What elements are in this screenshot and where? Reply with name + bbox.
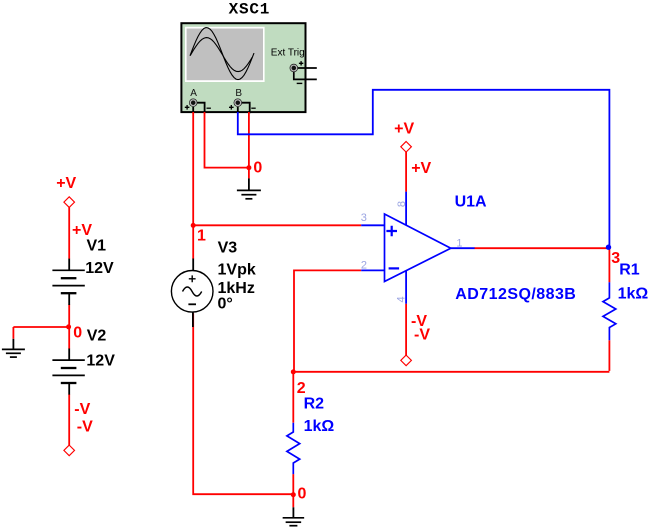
svg-text:-V: -V	[74, 401, 90, 418]
svg-text:V3: V3	[218, 239, 238, 256]
svg-text:A: A	[190, 88, 197, 99]
svg-text:4: 4	[396, 296, 408, 302]
svg-text:12V: 12V	[86, 353, 115, 370]
svg-text:+V: +V	[394, 121, 414, 138]
svg-text:Ext Trig: Ext Trig	[271, 48, 305, 59]
svg-text:1: 1	[197, 227, 206, 244]
svg-text:2: 2	[297, 380, 306, 397]
svg-text:-V: -V	[414, 326, 430, 343]
svg-text:1: 1	[456, 237, 462, 249]
svg-text:R2: R2	[304, 395, 325, 412]
svg-text:V1: V1	[87, 238, 107, 255]
svg-text:0°: 0°	[218, 296, 233, 313]
svg-text:+V: +V	[411, 160, 431, 177]
svg-text:+V: +V	[56, 175, 76, 192]
svg-text:XSC1: XSC1	[229, 1, 271, 19]
svg-text:R1: R1	[619, 262, 640, 279]
svg-text:0: 0	[73, 324, 82, 341]
svg-text:U1A: U1A	[455, 194, 487, 211]
svg-text:8: 8	[396, 201, 408, 207]
svg-text:1kΩ: 1kΩ	[618, 285, 649, 302]
svg-text:-V: -V	[77, 419, 93, 436]
svg-text:+V: +V	[72, 222, 92, 239]
svg-text:0: 0	[253, 159, 262, 176]
svg-text:1Vpk: 1Vpk	[218, 261, 256, 278]
svg-text:12V: 12V	[85, 260, 114, 277]
svg-text:0: 0	[298, 485, 307, 502]
svg-text:AD712SQ/883B: AD712SQ/883B	[455, 286, 576, 303]
svg-text:1kΩ: 1kΩ	[304, 418, 335, 435]
svg-text:2: 2	[361, 259, 367, 271]
svg-text:3: 3	[361, 212, 367, 224]
svg-text:1kHz: 1kHz	[218, 280, 255, 297]
svg-text:V2: V2	[87, 327, 107, 344]
svg-text:B: B	[235, 88, 242, 99]
